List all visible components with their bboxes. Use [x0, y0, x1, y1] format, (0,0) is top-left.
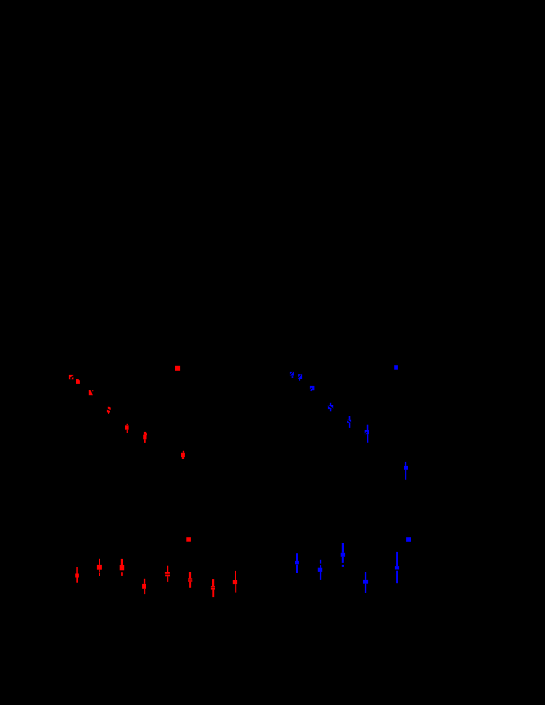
atom O17 (lower row rightmost) with vertical bonds [233, 571, 237, 593]
atom N8 with vertical bonds [404, 462, 408, 480]
atom N13 (lower row) with long vertical bonds [395, 552, 399, 583]
atom N5 with vertical bonds [347, 416, 351, 428]
atom N12 (lower row) with vertical bonds [363, 572, 368, 593]
hashed wedge bond O16 (lower row) [211, 579, 215, 597]
atom N11 (lower row) with hashed bond below [341, 543, 345, 567]
atom O9 (lower row) with vertical bonds [75, 567, 79, 583]
atom N14 (ring nitrogen, solid) [406, 537, 411, 542]
atom O11 (lower row) with hashed bond below [120, 559, 125, 576]
atom N4 (upper chain) with stubs [328, 403, 333, 412]
hashed wedge bond O13 (lower row) [165, 566, 170, 582]
bond C=O4 double bond (red half) [107, 407, 111, 414]
atom N9 (lower row) with vertical bonds [295, 553, 299, 573]
atom O8 with bond stubs [181, 451, 185, 459]
atom N10 (lower row) with hashed bond above [318, 560, 322, 580]
atom N2 (upper chain) [298, 374, 302, 381]
atom O1 (upper chain, leftmost) [69, 375, 74, 379]
atom O10 (lower row) with hashed bond below [97, 559, 102, 576]
atom N7 with vertical bonds [365, 425, 369, 443]
atom N6 (ring nitrogen, solid) [394, 365, 398, 370]
atom O5 (ring oxygen, solid) [175, 366, 180, 371]
atom O12 (lower row) with vertical bonds [142, 579, 146, 594]
atom O2 (upper chain) [76, 379, 80, 384]
hashed wedge bond O15 (lower row) [188, 572, 192, 588]
atom O14 (ring oxygen, solid) [186, 537, 191, 542]
atom O7 with bond stubs [143, 432, 147, 443]
atom N1 (upper chain, leftmost) [290, 372, 294, 378]
atom O6 with bond stubs [125, 424, 129, 433]
atom N3 (upper chain) [310, 386, 315, 391]
atom O3 (upper chain) [89, 390, 94, 395]
